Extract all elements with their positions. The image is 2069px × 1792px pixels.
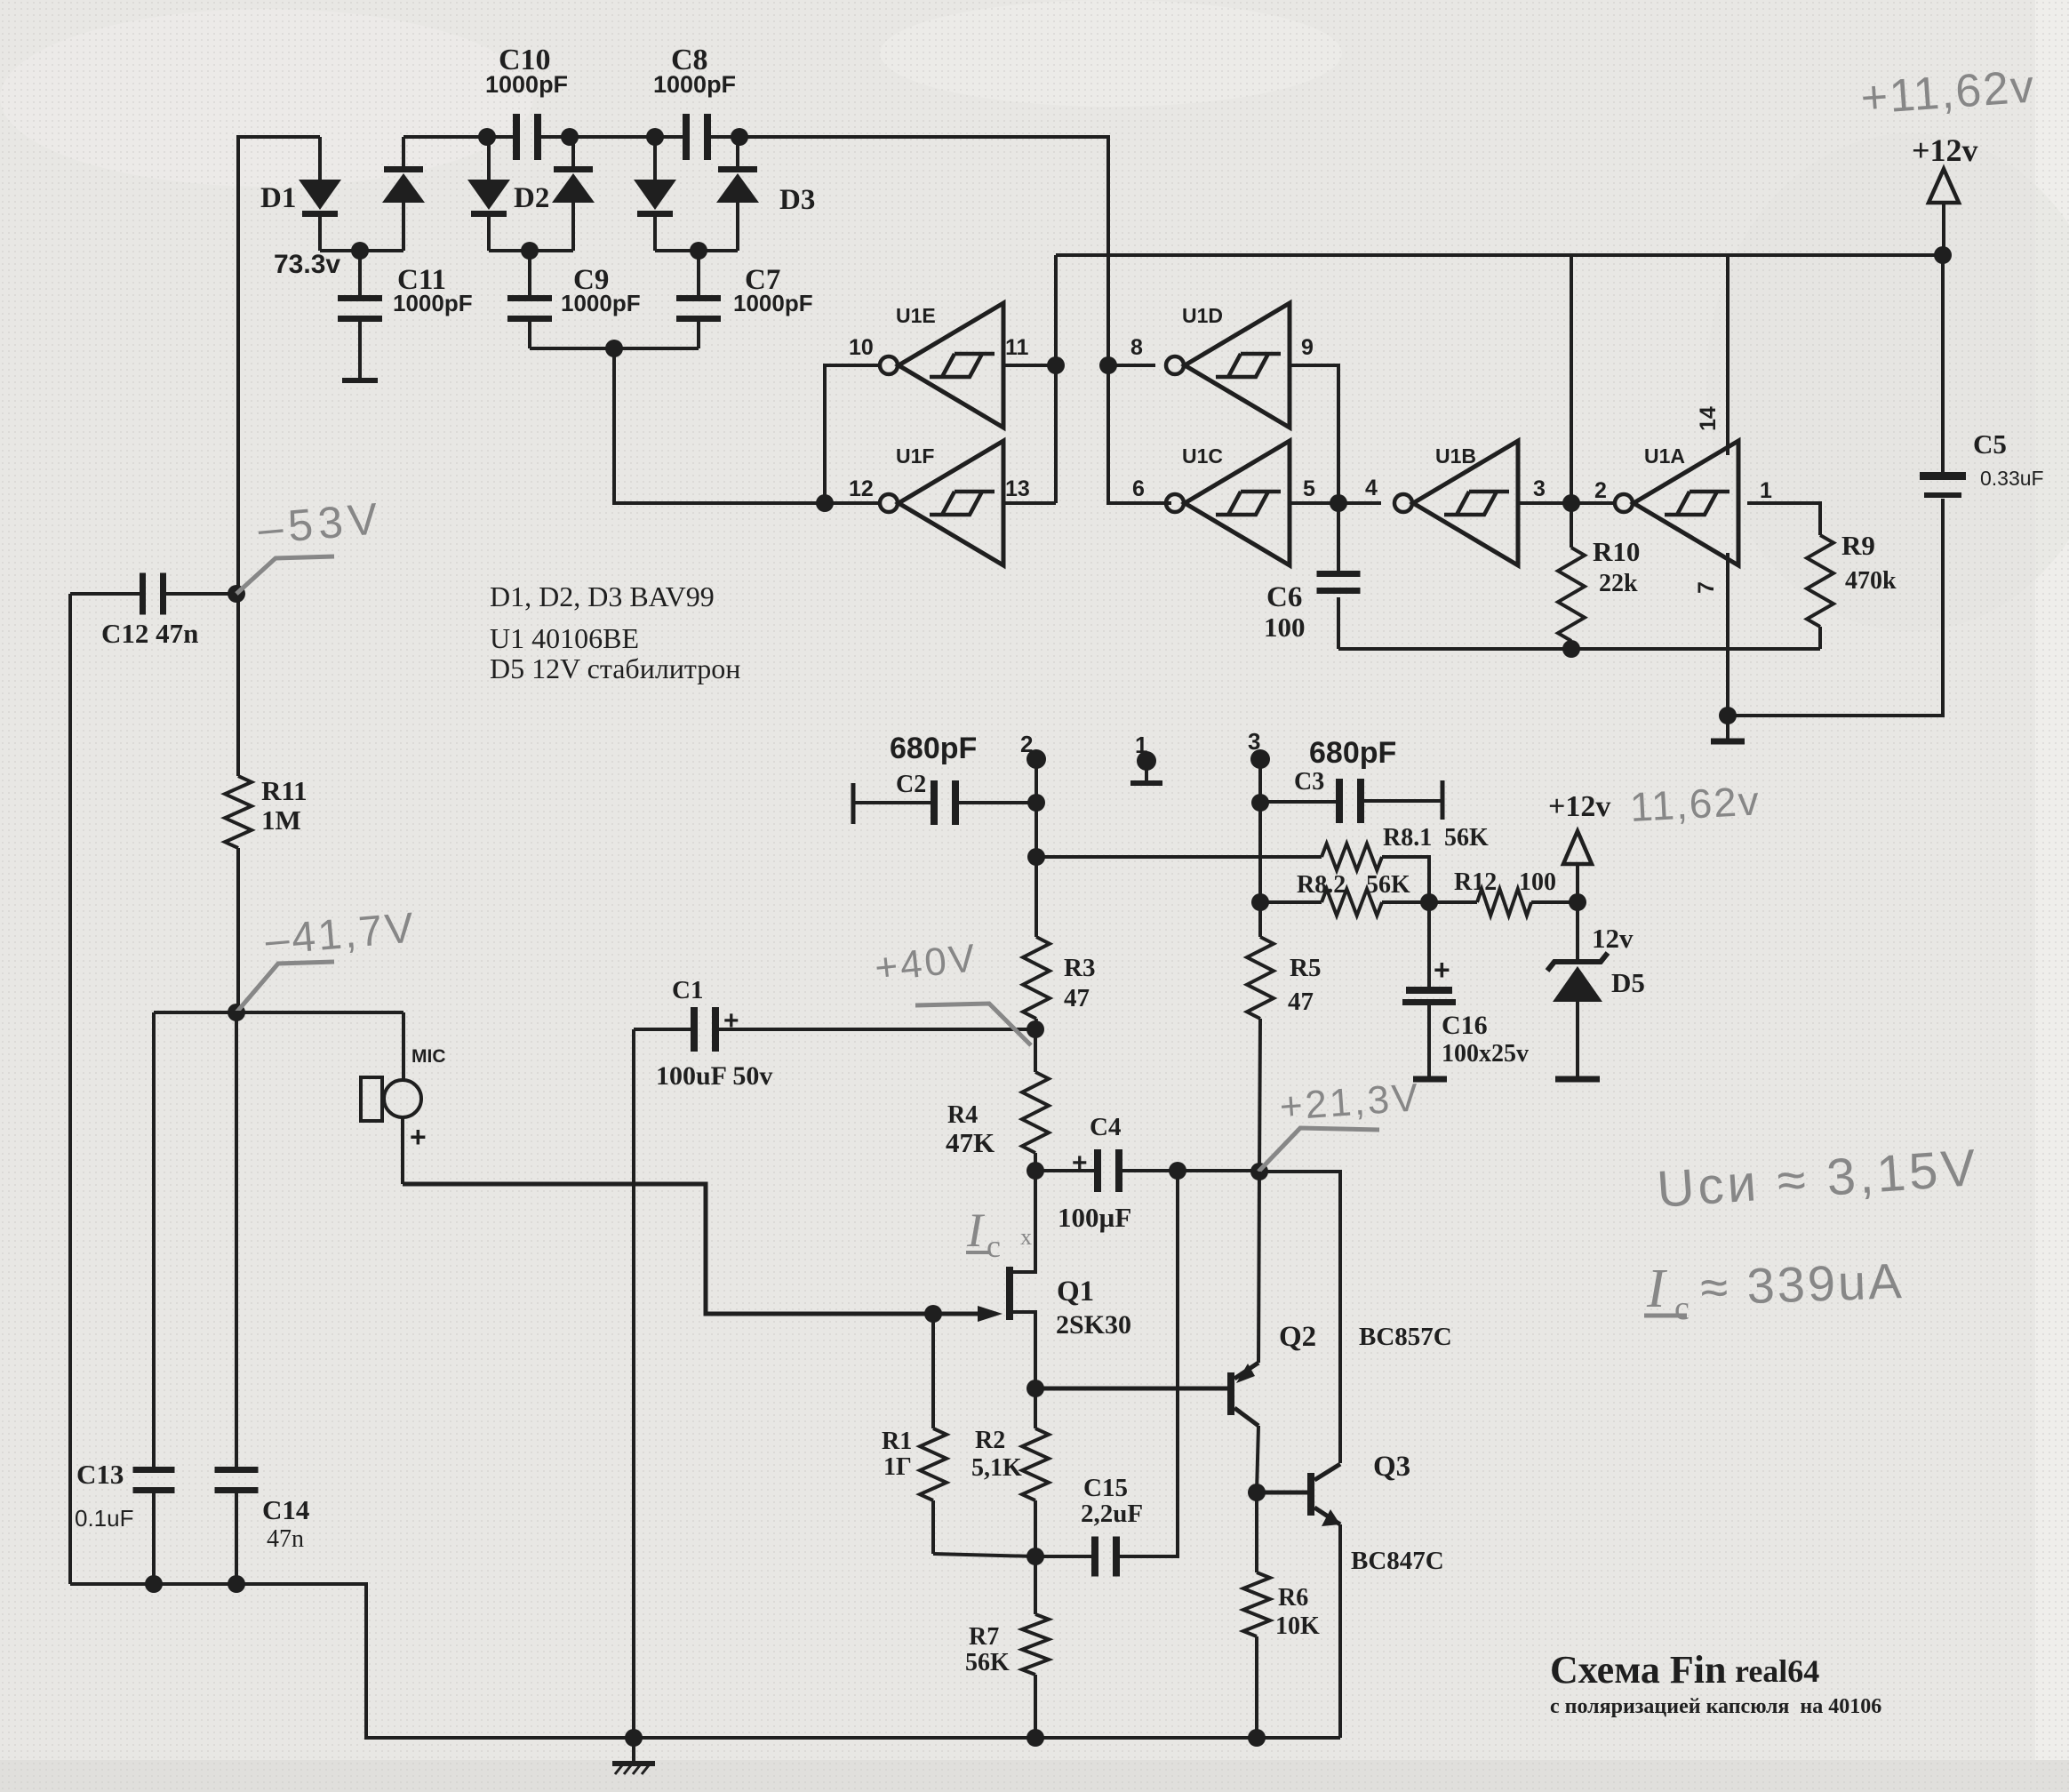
- ground: U1A pin 7: [1711, 716, 1745, 741]
- svg-text:R4: R4: [947, 1101, 978, 1129]
- svg-text:56K: 56K: [1444, 824, 1489, 852]
- svg-text:+12v: +12v: [1912, 132, 1978, 168]
- terminal bar C16 bottom: [1413, 1076, 1447, 1083]
- svg-text:1000pF: 1000pF: [653, 71, 736, 98]
- svg-text:Q1: Q1: [1057, 1276, 1094, 1308]
- label C4: [1072, 1113, 1121, 1178]
- svg-text:2,2uF: 2,2uF: [1081, 1500, 1143, 1528]
- microphone MIC: [361, 1012, 421, 1184]
- svg-text:11,62v: 11,62v: [1629, 777, 1761, 830]
- svg-text:real64: real64: [1735, 1653, 1819, 1689]
- pencil pointer +21.3V: [1258, 1128, 1379, 1172]
- handwritten Ic = 339uA: [1644, 1252, 1905, 1327]
- label C13: [75, 1459, 134, 1532]
- node main ground junction: [625, 1729, 643, 1747]
- pin 8: [1130, 335, 1143, 360]
- label D1: [260, 182, 296, 214]
- node -53V junction: [228, 585, 245, 603]
- svg-text:R2: R2: [975, 1427, 1005, 1454]
- wire: R11 lead down to -41.7V node: [236, 848, 240, 1012]
- resistor R5: [1247, 937, 1274, 1172]
- wire: D1 pair bottom junction: [320, 242, 403, 260]
- svg-text:0.33uF: 0.33uF: [1980, 467, 2044, 490]
- pin 4: [1365, 476, 1378, 500]
- node C10 left: [478, 128, 496, 146]
- label D5: [1611, 967, 1645, 998]
- capacitor C9: [507, 251, 552, 348]
- terminal bar below C11: [342, 378, 378, 383]
- svg-text:Q2: Q2: [1279, 1321, 1316, 1353]
- node C3 left junction: [1251, 794, 1269, 812]
- label R11: [261, 775, 308, 836]
- svg-text:BC857C: BC857C: [1359, 1323, 1452, 1351]
- label 2: [1020, 731, 1033, 757]
- wire: vertical bus drop to pin2 node: [1570, 255, 1573, 503]
- svg-text:U1A: U1A: [1644, 444, 1685, 468]
- svg-text:C3: C3: [1294, 768, 1324, 796]
- svg-text:Q3: Q3: [1373, 1451, 1410, 1483]
- wire: C10 to C8: [541, 135, 683, 139]
- resistor R11: [225, 776, 252, 848]
- label C2: [896, 771, 926, 798]
- inverter U1F: [880, 441, 1003, 565]
- svg-text:+: +: [1072, 1148, 1088, 1178]
- svg-text:3: 3: [1533, 476, 1546, 501]
- resistor R7: [1022, 1556, 1049, 1738]
- capacitor C13: [133, 1012, 175, 1584]
- wire: U1A input: [1571, 501, 1614, 505]
- pin 9: [1301, 335, 1314, 360]
- power +12v arrow (top right): [1929, 169, 1959, 255]
- svg-text:10K: 10K: [1275, 1612, 1320, 1640]
- pin 2: [1594, 478, 1607, 503]
- inverter U1D: [1166, 303, 1290, 428]
- wire: bottom-left rail: [70, 1584, 1340, 1738]
- resistor R4: [1022, 1029, 1049, 1171]
- svg-text:R5: R5: [1290, 954, 1321, 982]
- svg-text:73.3v: 73.3v: [274, 250, 340, 279]
- svg-text:9: 9: [1301, 335, 1314, 360]
- node pin-11 junction: [1047, 356, 1065, 374]
- pin 7 (rotated): [1694, 581, 1719, 594]
- svg-text:I: I: [966, 1204, 986, 1257]
- label R6: [1275, 1584, 1320, 1640]
- label C1: [672, 976, 739, 1036]
- wire: feedback bus C6/R10/R9: [1338, 647, 1820, 651]
- svg-text:+12v: +12v: [1548, 790, 1610, 823]
- svg-text:U1F: U1F: [896, 444, 934, 468]
- wire: C5 top to +12v node: [1941, 255, 1945, 472]
- svg-text:1: 1: [1760, 478, 1772, 503]
- node pin-8 junction: [1099, 356, 1117, 374]
- svg-text:1: 1: [1135, 732, 1147, 758]
- svg-text:47: 47: [1064, 984, 1090, 1012]
- svg-text:12: 12: [849, 476, 874, 501]
- label 100uF 50v: [656, 1061, 772, 1091]
- svg-text:47n: 47n: [267, 1525, 304, 1553]
- svg-text:56K: 56K: [1366, 871, 1410, 899]
- capacitor C7: [676, 251, 721, 348]
- label C9: [561, 264, 641, 316]
- svg-text:R11: R11: [261, 775, 308, 806]
- label C3: [1294, 768, 1324, 796]
- label 73.3v: [274, 250, 340, 279]
- svg-text:2: 2: [1594, 478, 1607, 503]
- wire: source row to Q2 base: [1035, 1387, 1228, 1391]
- label 12v: [1592, 923, 1634, 954]
- node +40V junction: [1027, 1020, 1044, 1038]
- pin 14 (rotated): [1696, 406, 1721, 431]
- capacitor C12: [70, 573, 229, 615]
- svg-text:100x25v: 100x25v: [1442, 1040, 1529, 1068]
- label U1F: [896, 444, 934, 468]
- wire: ground bus to C5 bottom: [1728, 499, 1943, 716]
- pin 13: [1005, 476, 1030, 501]
- label D2: [514, 182, 549, 214]
- wire: U1D output to U1C output tie: [1290, 365, 1338, 503]
- wire: top-left segment to D1: [238, 137, 320, 776]
- wire: R8.2 row: [1260, 889, 1429, 916]
- svg-text:BC847C: BC847C: [1351, 1547, 1444, 1575]
- node Q3 base junction: [1248, 1484, 1266, 1501]
- node C8 right: [731, 128, 748, 146]
- svg-text:c: c: [987, 1228, 1001, 1264]
- label C15: [1081, 1474, 1143, 1528]
- capacitor C14: [215, 1012, 259, 1584]
- label Q3: [1373, 1451, 1410, 1483]
- node pin-1 terminal: [1130, 751, 1162, 783]
- wire: -41.7V rail: [154, 1011, 403, 1014]
- handwritten +40V: [873, 936, 979, 990]
- node Q1 source junction: [1027, 1380, 1044, 1397]
- svg-text:R6: R6: [1278, 1584, 1308, 1612]
- wire: long bus y287 to +12v node: [1056, 253, 1943, 257]
- label R8.1 56K: [1383, 824, 1489, 852]
- handwritten +11,62v: [1859, 60, 2037, 124]
- node pin7 ground junction: [1719, 707, 1737, 724]
- svg-text:C6: C6: [1266, 581, 1302, 613]
- label R8.2 56K: [1297, 871, 1410, 899]
- capacitor C4: [1035, 1149, 1259, 1192]
- svg-text:56K: 56K: [965, 1649, 1010, 1676]
- capacitor C16: [1402, 902, 1456, 1077]
- svg-text:680pF: 680pF: [1309, 736, 1396, 770]
- svg-text:47K: 47K: [946, 1127, 995, 1158]
- resistor R3: [1023, 857, 1050, 1029]
- svg-text:100µF: 100µF: [1058, 1202, 1131, 1233]
- svg-text:c: c: [1674, 1290, 1690, 1327]
- inverter U1E: [880, 303, 1003, 428]
- svg-text:100: 100: [1519, 868, 1556, 896]
- wire: D3 pair bottom junction: [655, 242, 738, 260]
- label U1D: [1182, 304, 1223, 327]
- capacitor C1: [634, 1007, 1035, 1052]
- svg-text:5,1K: 5,1K: [971, 1454, 1022, 1482]
- wire: top rail D1 pair to C10: [403, 135, 513, 139]
- resistor R9: [1807, 535, 1833, 649]
- node C10 right: [561, 128, 579, 146]
- handwritten +21,3V: [1278, 1076, 1422, 1129]
- svg-text:+: +: [723, 1006, 739, 1036]
- label R7: [965, 1623, 1010, 1676]
- label + (MIC): [410, 1121, 427, 1153]
- svg-text:100uF 50v: 100uF 50v: [656, 1061, 772, 1091]
- svg-text:1000pF: 1000pF: [485, 71, 568, 98]
- svg-text:MIC: MIC: [411, 1046, 446, 1067]
- svg-text:4: 4: [1365, 476, 1378, 500]
- node oscillator C6 junction: [1330, 494, 1347, 512]
- wire: U1A pin14 supply line: [1726, 255, 1729, 455]
- svg-text:x: x: [1020, 1224, 1032, 1250]
- label R12 100: [1454, 868, 1556, 896]
- node -41.7V junction: [228, 1004, 245, 1021]
- capacitor C10: [513, 114, 541, 160]
- node R7 bottom: [1027, 1729, 1044, 1747]
- node C4 right junction: [1169, 1162, 1186, 1180]
- node R8.2 left junction: [1251, 893, 1269, 911]
- svg-text:680pF: 680pF: [890, 732, 977, 765]
- pencil pointer +40V: [915, 1004, 1031, 1045]
- wire: pin2 node down to R8.1 node: [1034, 803, 1038, 857]
- diode D2 first half (down): [467, 137, 510, 251]
- svg-text:R8.2: R8.2: [1297, 871, 1346, 899]
- inverter U1A: [1615, 441, 1738, 565]
- svg-text:12v: 12v: [1592, 923, 1634, 954]
- label + (C16): [1434, 954, 1450, 986]
- capacitor C6: [1317, 503, 1361, 649]
- svg-text:I: I: [1646, 1259, 1668, 1319]
- node R1/R2/C15 junction: [1027, 1548, 1044, 1565]
- label R1: [882, 1428, 912, 1481]
- wire: D2 pair bottom junction: [489, 242, 573, 260]
- label U1C: [1182, 444, 1223, 468]
- label U1A: [1644, 444, 1685, 468]
- label C16: [1442, 1011, 1529, 1068]
- label +12v (D5): [1548, 790, 1610, 823]
- svg-text:13: 13: [1005, 476, 1030, 501]
- label R4: [946, 1101, 995, 1158]
- handwritten Uси = 3,15V: [1655, 1139, 1981, 1219]
- diode D3 second half (up): [716, 137, 759, 251]
- wire: vertical pin11 to long bus: [1054, 255, 1058, 503]
- capacitor C3: [1260, 779, 1442, 823]
- pin 5: [1303, 476, 1315, 501]
- svg-text:U1D: U1D: [1182, 304, 1223, 327]
- svg-text:U1E: U1E: [896, 304, 936, 327]
- pencil pointer -53V: [236, 556, 334, 594]
- label U1B: [1435, 444, 1476, 468]
- node C2 right junction: [1027, 794, 1045, 812]
- diode D1 (first half, down): [299, 137, 341, 251]
- node R6 bottom: [1248, 1729, 1266, 1747]
- svg-text:с поляризацией капсюля на 401: с поляризацией капсюля на 40106: [1550, 1695, 1881, 1718]
- label R2: [971, 1427, 1022, 1482]
- label 680pF (C3): [1309, 736, 1396, 770]
- pin 3: [1533, 476, 1546, 501]
- svg-text:10: 10: [849, 335, 874, 360]
- svg-text:22k: 22k: [1599, 570, 1638, 597]
- diode D1 second half (up): [382, 137, 425, 251]
- wire: R5 column top: [1258, 803, 1262, 937]
- svg-text:R9: R9: [1841, 530, 1875, 561]
- label +12v (top right): [1912, 132, 1978, 168]
- label C5: [1973, 428, 2044, 490]
- svg-text:C12 47n: C12 47n: [101, 618, 198, 649]
- resistor R1: [920, 1314, 1035, 1556]
- transistor Q3 (BC847C NPN): [1257, 1464, 1340, 1738]
- svg-text:2SK30: 2SK30: [1056, 1310, 1131, 1340]
- svg-text:+: +: [410, 1121, 427, 1153]
- label R10: [1593, 536, 1640, 597]
- diode D3 first half (down): [634, 137, 676, 251]
- svg-text:C4: C4: [1090, 1113, 1121, 1141]
- wire: mic output to gate: [403, 1184, 996, 1314]
- node R8.1 left junction: [1027, 848, 1045, 866]
- label 1: [1135, 732, 1147, 758]
- capacitor C5: [1920, 472, 1966, 498]
- svg-text:47: 47: [1288, 988, 1314, 1016]
- label MIC: [411, 1046, 446, 1067]
- wire: U1F input wire: [1003, 501, 1056, 505]
- wire: C8 to corner, down to U1D input: [711, 137, 1171, 503]
- label C7: [733, 264, 813, 316]
- svg-text:3: 3: [1248, 728, 1260, 755]
- label BC847C: [1351, 1547, 1444, 1575]
- resistor R10: [1558, 503, 1585, 649]
- pin 6: [1132, 476, 1145, 501]
- handwritten Ic (drain current): [966, 1204, 1032, 1264]
- terminal bar C2 left: [851, 783, 856, 824]
- pin 11: [1005, 335, 1029, 360]
- node +12v top: [1934, 246, 1952, 264]
- wire: U1A pin7 ground line: [1726, 553, 1729, 716]
- svg-text:1Г: 1Г: [883, 1453, 912, 1481]
- wire: multiplier tap down to U1F input: [614, 348, 825, 503]
- wire: +21.3V corner down to Q3 collector: [1259, 1172, 1340, 1463]
- label C14: [262, 1494, 309, 1553]
- wire: U1A output pin1 to R9: [1747, 503, 1820, 535]
- svg-text:C16: C16: [1442, 1011, 1488, 1040]
- svg-text:R8.1: R8.1: [1383, 824, 1432, 852]
- svg-text:C15: C15: [1083, 1474, 1128, 1502]
- svg-text:R7: R7: [969, 1623, 999, 1651]
- wire: U1D input: [1108, 364, 1155, 367]
- power +12v arrow (D5): [1563, 831, 1592, 902]
- wire: U1E input wire: [1003, 364, 1056, 367]
- svg-text:R12: R12: [1454, 868, 1497, 896]
- transistor Q1 (2SK30 JFET): [1006, 1171, 1035, 1388]
- svg-text:Схема Fin: Схема Fin: [1550, 1648, 1726, 1692]
- svg-text:6: 6: [1132, 476, 1145, 501]
- wire: top rail corner down to U1D/U1C: [739, 135, 1108, 139]
- svg-text:C5: C5: [1973, 428, 2007, 460]
- svg-text:D1, D2, D3 BAV99: D1, D2, D3 BAV99: [490, 580, 715, 612]
- capacitor C11: [338, 251, 382, 379]
- label C10: [485, 44, 568, 98]
- gate arrow Q1: [978, 1306, 1003, 1322]
- subtitle: [1550, 1695, 1881, 1718]
- transistor Q2 (BC857C PNP): [1227, 1172, 1259, 1492]
- label 680pF (C2): [890, 732, 977, 765]
- label R3: [1064, 954, 1095, 1012]
- svg-text:470k: 470k: [1845, 567, 1897, 595]
- node C8 left: [646, 128, 664, 146]
- svg-text:C13: C13: [76, 1459, 124, 1490]
- node R8 junction: [1420, 893, 1438, 911]
- svg-text:U1B: U1B: [1435, 444, 1476, 468]
- svg-text:R1: R1: [882, 1428, 912, 1455]
- capacitor C2: [853, 780, 1036, 825]
- svg-text:C2: C2: [896, 771, 926, 798]
- svg-text:+: +: [1434, 954, 1450, 986]
- node pin-2 terminal: [1027, 749, 1046, 803]
- resistor R12: [1429, 889, 1578, 916]
- svg-text:D2: D2: [514, 182, 549, 214]
- handwritten -53V: [256, 493, 385, 554]
- pin 1: [1760, 478, 1772, 503]
- node C4 left junction: [1027, 1162, 1044, 1180]
- wire: U1B output: [1518, 501, 1571, 505]
- svg-text:D1: D1: [260, 182, 296, 214]
- label C11: [393, 264, 473, 316]
- svg-text:14: 14: [1696, 406, 1721, 431]
- inverter U1B: [1394, 441, 1518, 565]
- svg-text:1000pF: 1000pF: [561, 290, 641, 316]
- wire: R8.1 row: [1036, 844, 1429, 902]
- label R5: [1288, 954, 1321, 1016]
- zener diode D5: [1547, 902, 1608, 1077]
- node R1 top junction: [924, 1305, 942, 1323]
- node R5 bottom junction: [1250, 1163, 1268, 1180]
- svg-text:11: 11: [1005, 335, 1029, 360]
- wire: U1E/U1F output tie: [825, 365, 878, 503]
- label C6: [1264, 581, 1306, 643]
- svg-text:D5: D5: [1611, 967, 1645, 998]
- svg-text:R3: R3: [1064, 954, 1095, 982]
- svg-text:U1C: U1C: [1182, 444, 1223, 468]
- label D3: [779, 184, 815, 216]
- svg-text:5: 5: [1303, 476, 1315, 501]
- parts list text: [490, 580, 740, 684]
- ground: main: [612, 1738, 655, 1774]
- node R10 bottom: [1562, 640, 1580, 658]
- svg-text:1M: 1M: [261, 804, 301, 836]
- node R12/D5 junction: [1569, 893, 1586, 911]
- wire: to U1B input: [1338, 501, 1381, 505]
- handwritten 11,62v: [1629, 777, 1761, 830]
- svg-text:D3: D3: [779, 184, 815, 216]
- diode D2 second half (up): [552, 137, 595, 251]
- handwritten -41,7V: [263, 904, 418, 964]
- svg-text:≈ 339uA: ≈ 339uA: [1699, 1252, 1905, 1316]
- svg-text:1000pF: 1000pF: [393, 290, 473, 316]
- node C13 bottom: [145, 1575, 163, 1593]
- label U1E: [896, 304, 936, 327]
- title Схема Fin real64: [1550, 1648, 1819, 1692]
- terminal bar D5 bottom: [1555, 1076, 1600, 1083]
- label C8: [653, 44, 736, 98]
- wire: C9/C7 bottom bus: [530, 340, 699, 357]
- wire: far-left vertical: [68, 594, 72, 1584]
- pencil pointer -41.7V: [236, 962, 334, 1012]
- svg-text:1000pF: 1000pF: [733, 290, 813, 316]
- svg-text:2: 2: [1020, 731, 1033, 757]
- svg-text:100: 100: [1264, 612, 1306, 643]
- capacitor C15: [1035, 1171, 1178, 1577]
- node pin-3 terminal: [1250, 749, 1270, 803]
- terminal bar C3 right: [1441, 780, 1445, 820]
- inverter U1C: [1166, 441, 1290, 565]
